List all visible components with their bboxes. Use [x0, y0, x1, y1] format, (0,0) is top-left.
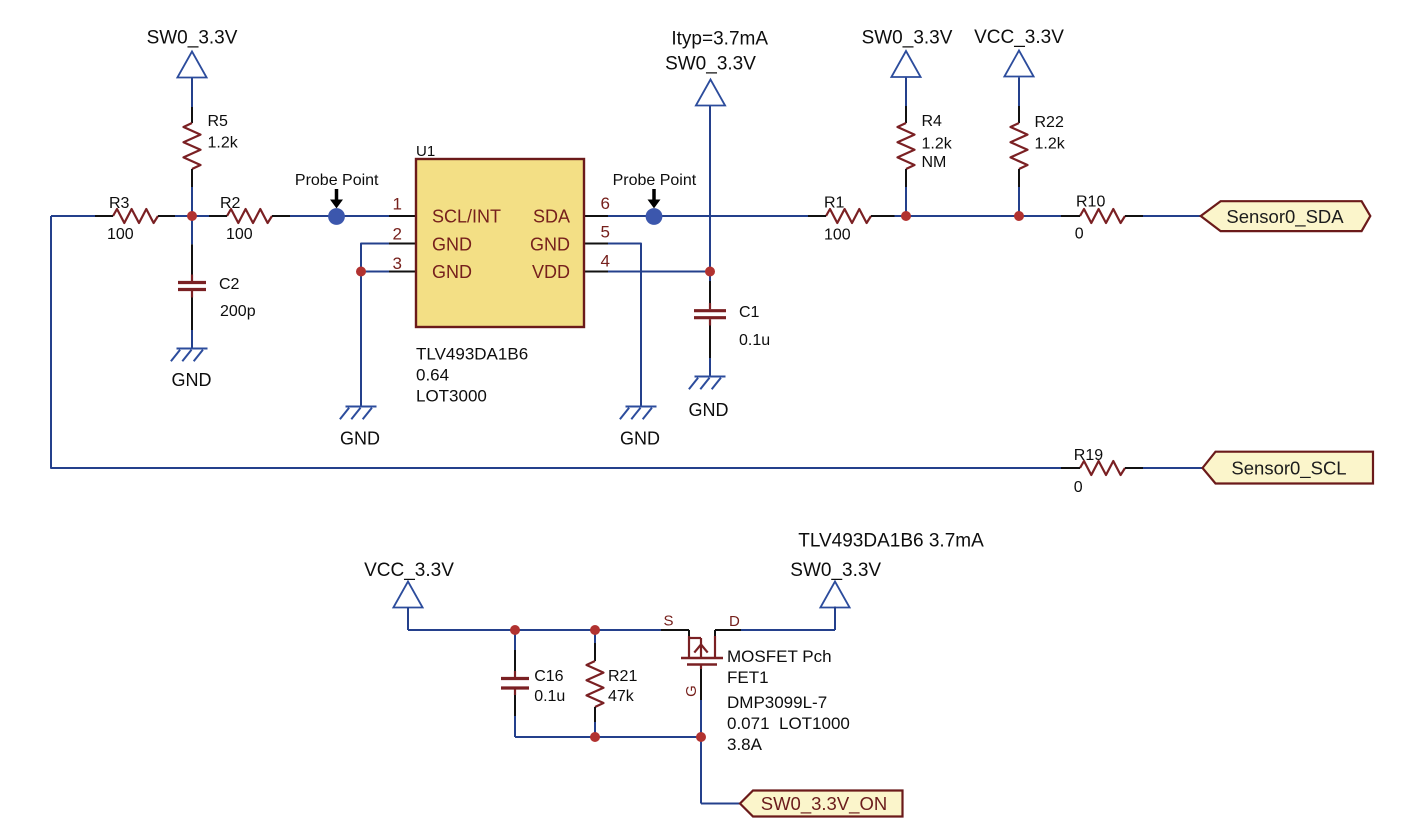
svg-text:100: 100	[107, 226, 134, 243]
svg-text:1.2k: 1.2k	[1035, 136, 1066, 153]
svg-text:VDD: VDD	[532, 262, 570, 282]
svg-text:TLV493DA1B6 3.7mA: TLV493DA1B6 3.7mA	[798, 531, 984, 552]
svg-text:0.1u: 0.1u	[534, 688, 565, 705]
svg-text:GND: GND	[620, 429, 660, 449]
svg-text:100: 100	[226, 226, 253, 243]
svg-text:GND: GND	[432, 234, 472, 254]
svg-text:0.071 LOT1000: 0.071 LOT1000	[727, 714, 850, 733]
svg-text:4: 4	[601, 252, 610, 271]
svg-text:3: 3	[393, 254, 402, 273]
svg-text:SW0_3.3V: SW0_3.3V	[665, 54, 756, 75]
svg-text:200p: 200p	[220, 303, 256, 320]
svg-text:U1: U1	[416, 143, 435, 160]
svg-text:MOSFET Pch: MOSFET Pch	[727, 647, 832, 666]
svg-text:NM: NM	[922, 154, 947, 171]
svg-text:R21: R21	[608, 668, 637, 685]
svg-text:Sensor0_SCL: Sensor0_SCL	[1231, 458, 1346, 480]
svg-text:S: S	[664, 613, 674, 630]
svg-text:Sensor0_SDA: Sensor0_SDA	[1226, 206, 1344, 228]
svg-text:SCL/INT: SCL/INT	[432, 207, 501, 227]
svg-text:Probe Point: Probe Point	[613, 172, 697, 189]
svg-text:47k: 47k	[608, 688, 635, 705]
svg-text:R19: R19	[1074, 447, 1103, 464]
svg-text:G: G	[683, 685, 700, 697]
svg-text:R10: R10	[1076, 194, 1105, 211]
svg-text:R22: R22	[1035, 114, 1064, 131]
svg-text:GND: GND	[172, 370, 212, 390]
svg-text:SW0_3.3V: SW0_3.3V	[862, 27, 953, 48]
svg-text:R1: R1	[824, 195, 845, 212]
svg-text:VCC_3.3V: VCC_3.3V	[364, 560, 454, 581]
svg-text:LOT3000: LOT3000	[416, 387, 487, 406]
svg-text:1.2k: 1.2k	[922, 136, 953, 153]
svg-text:VCC_3.3V: VCC_3.3V	[974, 27, 1064, 48]
svg-text:100: 100	[824, 227, 851, 244]
svg-text:GND: GND	[432, 262, 472, 282]
svg-text:Probe Point: Probe Point	[295, 172, 379, 189]
svg-text:SW0_3.3V: SW0_3.3V	[790, 560, 881, 581]
svg-text:2: 2	[393, 225, 402, 244]
svg-text:C2: C2	[219, 276, 240, 293]
svg-text:SW0_3.3V_ON: SW0_3.3V_ON	[761, 793, 887, 815]
svg-text:GND: GND	[689, 400, 729, 420]
svg-text:GND: GND	[530, 234, 570, 254]
svg-text:Ityp=3.7mA: Ityp=3.7mA	[671, 29, 768, 50]
svg-text:R5: R5	[208, 113, 229, 130]
svg-text:5: 5	[601, 223, 610, 242]
svg-text:R3: R3	[109, 195, 130, 212]
svg-text:0: 0	[1074, 479, 1083, 496]
svg-text:D: D	[729, 613, 740, 630]
svg-text:C1: C1	[739, 304, 760, 321]
svg-text:SDA: SDA	[533, 207, 570, 227]
svg-text:0.64: 0.64	[416, 366, 449, 385]
svg-text:FET1: FET1	[727, 668, 769, 687]
svg-text:R2: R2	[220, 195, 241, 212]
svg-text:1.2k: 1.2k	[208, 135, 239, 152]
svg-text:SW0_3.3V: SW0_3.3V	[147, 28, 238, 49]
svg-text:0.1u: 0.1u	[739, 332, 770, 349]
svg-text:0: 0	[1075, 226, 1084, 243]
svg-text:C16: C16	[534, 668, 563, 685]
svg-text:DMP3099L-7: DMP3099L-7	[727, 693, 827, 712]
svg-text:R4: R4	[922, 113, 943, 130]
svg-text:GND: GND	[340, 429, 380, 449]
svg-text:1: 1	[393, 195, 402, 214]
svg-text:TLV493DA1B6: TLV493DA1B6	[416, 345, 528, 364]
svg-text:3.8A: 3.8A	[727, 735, 763, 754]
svg-text:6: 6	[601, 194, 610, 213]
